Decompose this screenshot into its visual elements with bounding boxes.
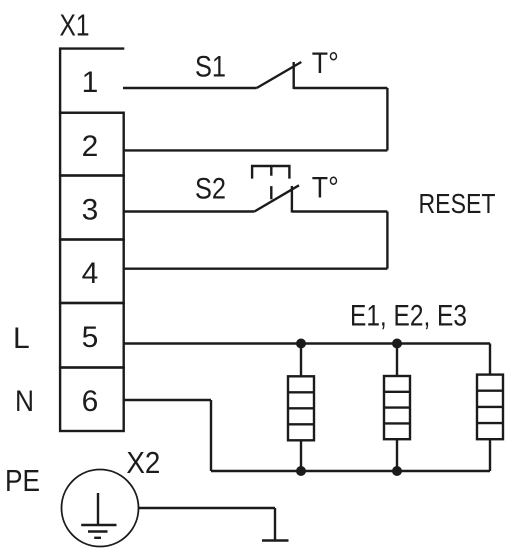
heater E3 bottom lead xyxy=(489,439,491,471)
svg-text:X1: X1 xyxy=(60,7,90,42)
wire terminal 1 to switch S1 xyxy=(123,87,257,89)
PE end terminal bar xyxy=(262,539,289,541)
svg-text:E1, E2, E3: E1, E2, E3 xyxy=(350,300,467,333)
heater E2 body xyxy=(384,376,410,439)
heater E1 body xyxy=(288,376,314,440)
wire S1 output to right xyxy=(294,87,388,89)
node junction dot bottom E2 xyxy=(392,466,402,476)
wire PE vertical stub xyxy=(274,508,276,541)
svg-text:4: 4 xyxy=(82,257,99,290)
switch S2 manual reset bracket xyxy=(252,166,289,199)
switch S2 blade (thermal contact with manual reset) xyxy=(254,185,299,211)
terminal block X1: terminal 1 (open right side) xyxy=(60,49,124,113)
svg-text:T°: T° xyxy=(312,47,339,80)
terminal block X1: terminal 2 xyxy=(60,113,124,176)
terminal block X1: terminal 6 xyxy=(60,368,124,432)
wire return to terminal 2 xyxy=(123,149,387,151)
svg-text:S1: S1 xyxy=(195,51,226,84)
switch S1 fixed contact post xyxy=(293,62,295,89)
svg-text:X2: X2 xyxy=(126,445,160,480)
terminal block X1: terminal 5 xyxy=(60,303,124,368)
heater E1 bottom lead xyxy=(300,440,302,471)
terminal block X1: terminal 4 xyxy=(60,240,124,304)
svg-text:T°: T° xyxy=(312,171,339,204)
svg-text:3: 3 xyxy=(82,193,99,226)
heater E2 bottom lead xyxy=(396,439,398,471)
ground symbol inside X2 xyxy=(81,493,116,538)
wire right vertical S1 loop xyxy=(386,88,388,150)
switch S1 blade (thermal contact, NC) xyxy=(257,62,302,88)
wire neutral vertical drop xyxy=(210,400,212,471)
node junction dot top E2 xyxy=(392,339,402,349)
heater E1 top lead xyxy=(300,344,302,377)
svg-text:L: L xyxy=(13,322,30,355)
heater E2 top lead xyxy=(396,344,398,377)
svg-text:1: 1 xyxy=(82,66,99,99)
svg-text:6: 6 xyxy=(82,385,99,418)
earth terminal X2 circle xyxy=(62,470,139,547)
svg-text:S2: S2 xyxy=(195,173,226,206)
node junction dot top E1 xyxy=(296,339,306,349)
svg-text:2: 2 xyxy=(82,130,99,163)
wire PE from X2 circle xyxy=(138,507,275,509)
heater E3 body xyxy=(477,375,503,440)
svg-text:RESET: RESET xyxy=(419,188,496,219)
wire bottom neutral rail xyxy=(211,470,490,472)
node junction dot bottom E1 xyxy=(296,466,306,476)
wire return to terminal 4 xyxy=(123,268,387,270)
switch S2 fixed contact post xyxy=(291,186,293,213)
heater E3 top lead xyxy=(489,344,491,375)
wire right vertical S2 loop xyxy=(386,212,388,269)
svg-text:PE: PE xyxy=(5,463,40,498)
wire L rail from terminal 5 xyxy=(123,342,490,344)
wire terminal 3 to switch S2 xyxy=(123,210,254,212)
wire neutral from terminal 6 xyxy=(123,399,211,401)
wire S2 output to right xyxy=(292,210,388,212)
terminal block X1: terminal 3 xyxy=(60,176,124,240)
svg-text:5: 5 xyxy=(82,321,99,354)
svg-text:N: N xyxy=(15,385,34,418)
